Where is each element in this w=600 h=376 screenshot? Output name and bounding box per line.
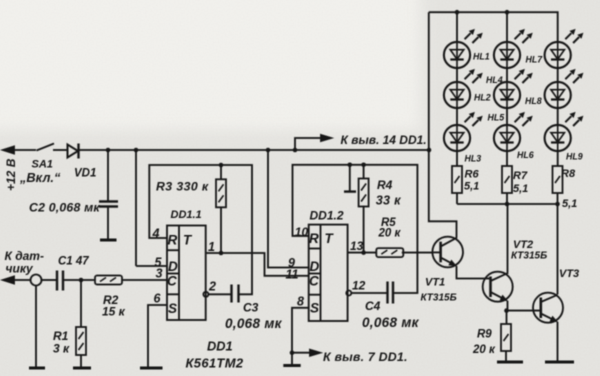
- svg-text:R: R: [309, 231, 319, 246]
- svg-text:C: C: [309, 274, 319, 289]
- svg-text:КТ315Б: КТ315Б: [511, 251, 547, 262]
- svg-text:0,068 мк: 0,068 мк: [362, 315, 420, 330]
- svg-text:5,1: 5,1: [562, 198, 577, 210]
- svg-text:5,1: 5,1: [513, 183, 528, 195]
- svg-text:HL4: HL4: [486, 75, 503, 85]
- svg-text:DD1.2: DD1.2: [310, 209, 344, 223]
- svg-text:8: 8: [297, 295, 304, 309]
- svg-text:D: D: [168, 259, 178, 274]
- svg-text:HL9: HL9: [566, 152, 583, 162]
- svg-text:„Вкл.“: „Вкл.“: [19, 170, 61, 185]
- svg-text:3: 3: [156, 267, 163, 281]
- svg-text:VD1: VD1: [74, 168, 96, 180]
- svg-text:5,1: 5,1: [464, 181, 479, 193]
- svg-text:К выв. 14 DD1.: К выв. 14 DD1.: [341, 133, 427, 147]
- svg-text:VT2: VT2: [513, 239, 533, 251]
- svg-text:R4: R4: [377, 178, 393, 192]
- svg-text:13: 13: [350, 239, 364, 253]
- svg-text:0,068 мк: 0,068 мк: [225, 316, 283, 331]
- svg-text:20 к: 20 к: [378, 228, 402, 240]
- svg-text:12: 12: [352, 279, 366, 293]
- svg-text:R3 330 к: R3 330 к: [156, 180, 209, 194]
- svg-text:15 к: 15 к: [102, 305, 126, 319]
- svg-text:4: 4: [152, 227, 160, 241]
- svg-text:чику: чику: [6, 262, 35, 276]
- svg-text:HL3: HL3: [465, 154, 482, 164]
- svg-text:10: 10: [295, 225, 309, 239]
- svg-text:DD1.1: DD1.1: [171, 209, 202, 221]
- svg-text:R9: R9: [477, 329, 492, 341]
- svg-text:VT1: VT1: [425, 277, 445, 289]
- svg-text:R7: R7: [513, 170, 528, 182]
- svg-text:HL1: HL1: [473, 52, 490, 62]
- svg-text:R: R: [168, 233, 178, 248]
- svg-text:КТ315Б: КТ315Б: [421, 293, 457, 304]
- svg-text:DD1: DD1: [207, 339, 233, 354]
- svg-text:SA1: SA1: [32, 159, 53, 171]
- svg-text:C: C: [167, 274, 177, 289]
- svg-text:R6: R6: [465, 169, 480, 181]
- svg-text:11: 11: [286, 268, 299, 282]
- svg-text:3 к: 3 к: [53, 342, 70, 356]
- svg-text:С3: С3: [243, 301, 259, 315]
- svg-text:D: D: [310, 259, 320, 274]
- svg-text:С4: С4: [365, 299, 381, 313]
- svg-text:20 к: 20 к: [472, 344, 496, 356]
- svg-text:К561ТМ2: К561ТМ2: [186, 356, 244, 371]
- svg-text:HL5: HL5: [488, 113, 505, 123]
- svg-text:6: 6: [154, 292, 162, 306]
- svg-text:HL7: HL7: [526, 55, 544, 65]
- svg-text:HL6: HL6: [517, 150, 534, 160]
- svg-text:С2 0,068 мк: С2 0,068 мк: [29, 201, 100, 215]
- svg-text:1: 1: [208, 240, 215, 254]
- svg-text:S: S: [310, 301, 319, 316]
- svg-text:HL8: HL8: [525, 96, 542, 106]
- svg-text:К выв. 7 DD1.: К выв. 7 DD1.: [323, 350, 408, 364]
- svg-text:HL2: HL2: [474, 93, 491, 103]
- svg-text:С1 47: С1 47: [58, 256, 89, 268]
- svg-text:VT3: VT3: [559, 268, 579, 280]
- svg-text:+12 В: +12 В: [4, 158, 18, 191]
- svg-text:S: S: [168, 301, 177, 316]
- svg-text:2: 2: [208, 280, 216, 294]
- svg-text:R8: R8: [561, 168, 576, 180]
- svg-text:33 к: 33 к: [376, 194, 401, 208]
